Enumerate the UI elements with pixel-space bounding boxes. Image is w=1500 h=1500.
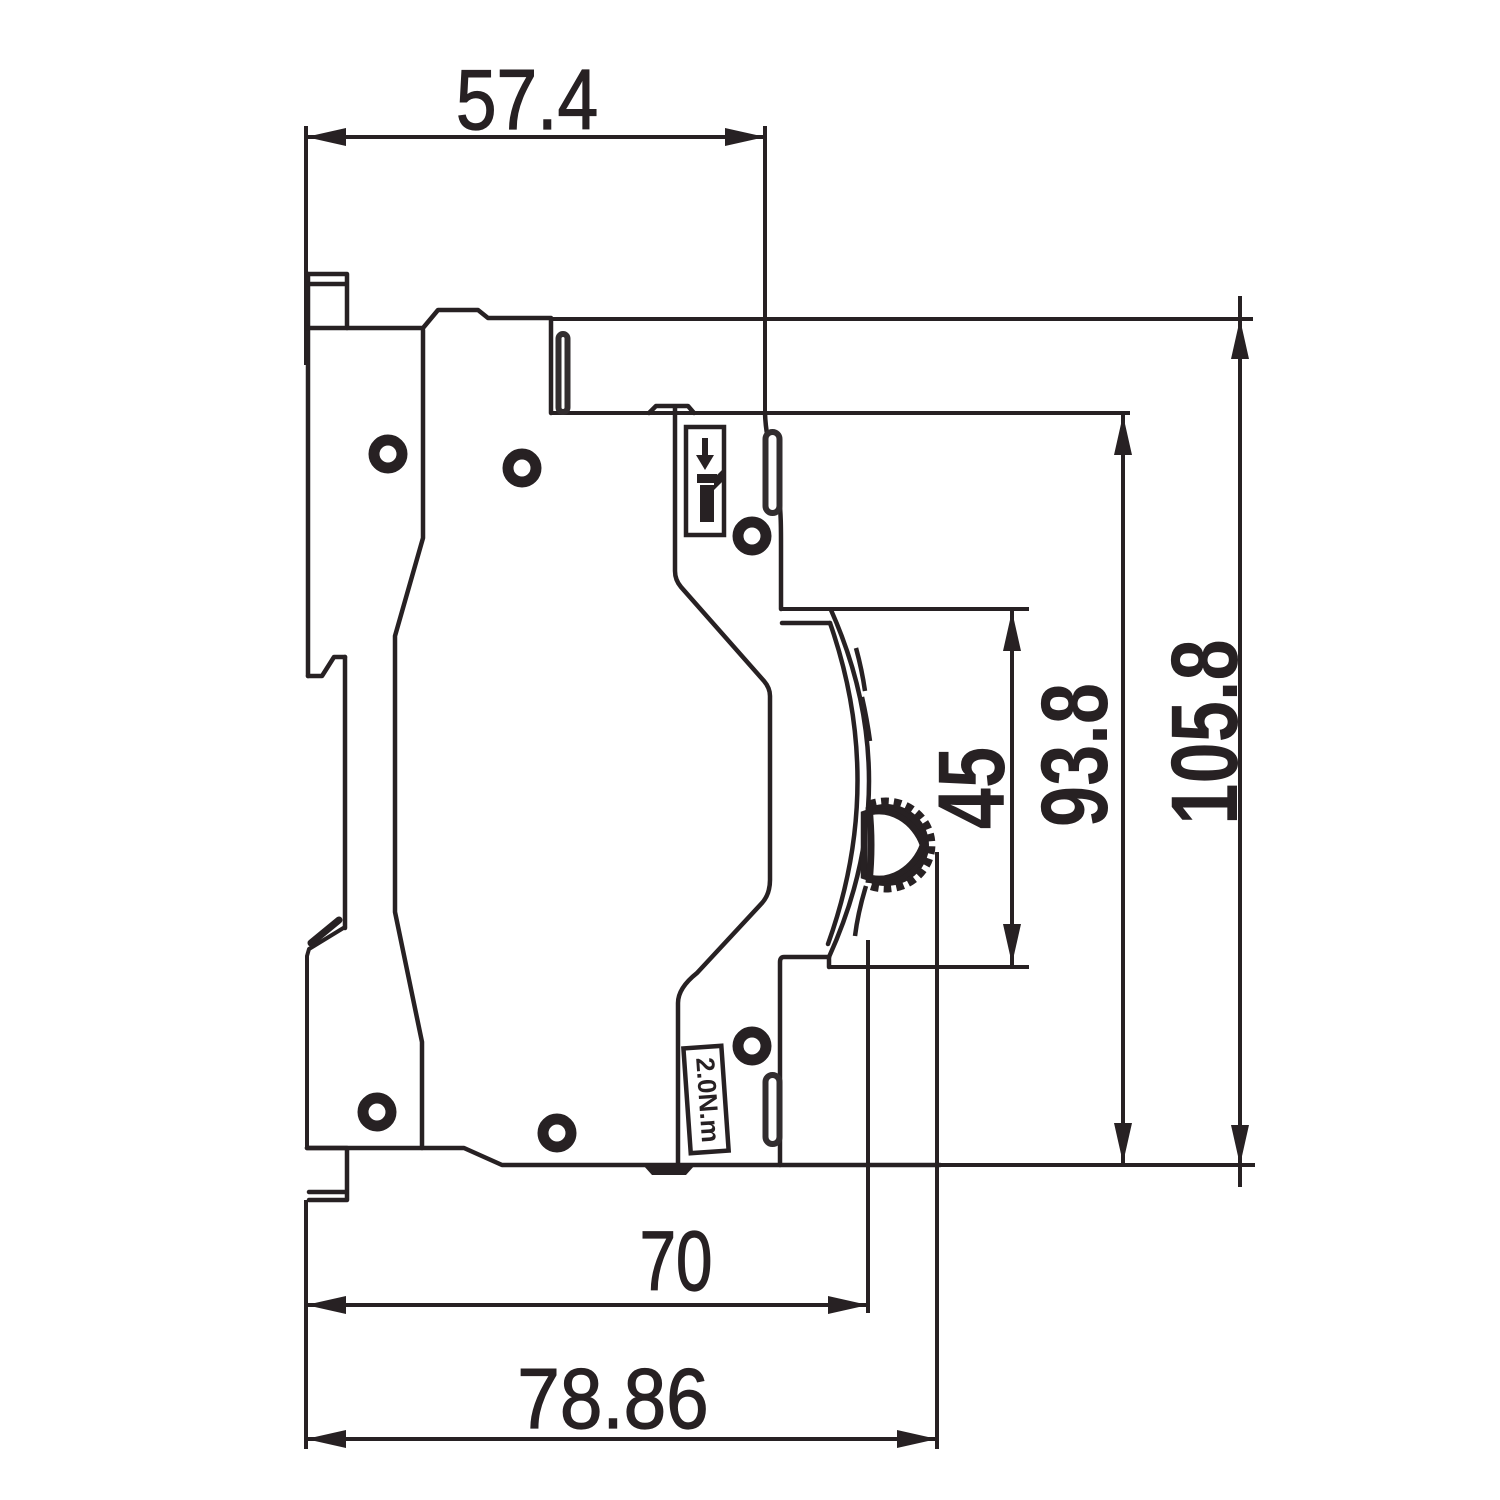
extension line top of 105.8 (y=318) [552,317,1253,321]
top edge of back/mid body [307,310,551,413]
svg-text:57.4: 57.4 [456,52,598,147]
extension line left bottom (x=306) [304,1200,308,1449]
detent mark below knob [855,886,866,936]
din rail slot notch [308,657,345,676]
dimension line 45 [1010,609,1014,966]
bottom notch tab [643,1165,695,1175]
extension line right of 57.4 (x=765) [763,126,767,413]
back plate left edge [306,274,311,676]
step terminal slot [559,334,568,412]
svg-text:105.8: 105.8 [1152,639,1258,824]
front upper edge [765,413,781,609]
arrows 57.4 [306,128,346,146]
internal line mid body / front section [675,407,770,1163]
bottom edge [307,1148,940,1165]
rivet circles [363,440,766,1147]
top DIN tab double line [308,274,347,328]
knob: teeth band [868,802,931,888]
dimension line 57.4 [306,135,765,139]
bottom DIN tab [307,1148,347,1200]
arrowheads [306,128,1249,1448]
extension line top of 93.8 / body top of front section (y=413) [551,411,1130,415]
knob egg face [864,811,923,879]
arrows 78.86 [306,1430,346,1448]
svg-text:93.8: 93.8 [1022,683,1128,827]
lower label [683,1046,728,1153]
dimension line 78.86 [306,1437,937,1441]
svg-text:70: 70 [640,1214,713,1308]
step to 45 ext [827,957,832,967]
top edge bump of front section [649,406,694,413]
dimension texts [456,52,1258,1447]
extension line 70 right (x=868) [866,940,870,1313]
upper terminal capsule [766,432,780,513]
arrows 93.8 [1114,415,1132,455]
lower terminal capsule [766,1075,780,1144]
bezel inner ledge top [782,621,830,626]
extension line bottom of 45 (y=967) [829,965,1029,969]
svg-text:78.86: 78.86 [517,1352,708,1447]
din clip spring [311,920,339,943]
arrows 45 [1003,611,1021,651]
detent marks above knob [856,648,865,691]
upper label [686,427,724,535]
arrows 105.8 [1231,319,1249,359]
body outline [307,274,940,1200]
extension line bottom (y=1165) body bottom + ext [940,1163,1255,1167]
dimension line 105.8 [1238,296,1242,1187]
extension line left (57.4 / x=306) [304,126,308,365]
bezel outer arc [829,610,869,957]
dimension line 70 [306,1303,868,1307]
knob left edge on bezel [869,807,871,883]
dimension line 93.8 [1121,413,1125,1165]
svg-text:45: 45 [919,747,1025,829]
extension line 78.86 right (x=937) [935,852,939,1449]
bezel inner arc [828,623,858,944]
extension line top of 45 (y=609) [780,607,1029,611]
arrows 70 [306,1296,346,1314]
svg-text:2.0N.m: 2.0N.m [690,1056,726,1143]
bezel bottom ledge / front lower edge [780,957,829,1165]
internal line back plate / mid body [395,330,423,1148]
din clip jaw edge [343,657,348,928]
din clip hook [307,927,345,1148]
